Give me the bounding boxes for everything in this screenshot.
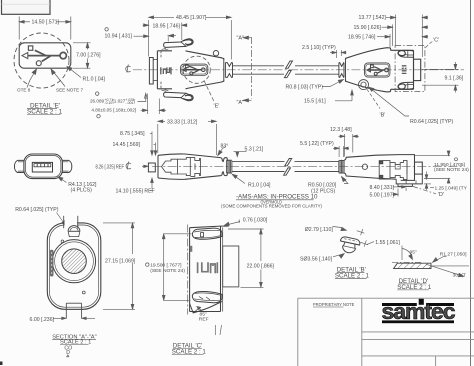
detail E dim 7.00	[73, 43, 91, 68]
svg-text:[1.027: [1.027	[113, 99, 126, 104]
svg-text:12.3 [.48]: 12.3 [.48]	[330, 127, 352, 133]
top-right connector: usb shell	[414, 59, 421, 80]
section A-A dome rivet	[61, 226, 80, 243]
dim 0.76	[224, 220, 240, 226]
svg-text:-0.10: -0.10	[105, 101, 113, 105]
dim 15.5	[304, 99, 326, 105]
middle centerline symbol	[126, 162, 131, 170]
page right border	[470, 0, 472, 366]
svg-text:0.76 [.030]: 0.76 [.030]	[243, 217, 268, 223]
svg-text:18.95 [.746]: 18.95 [.746]	[153, 23, 181, 29]
svg-text:95°: 95°	[410, 250, 417, 256]
top-right connector: usb plate	[365, 63, 390, 77]
dim 26089 leaders	[138, 93, 167, 114]
svg-text:18.95 [.746]: 18.95 [.746]	[348, 35, 376, 41]
svg-text:]: ]	[134, 99, 135, 104]
svg-text:(4 PLCS): (4 PLCS)	[71, 187, 93, 193]
top cable run	[233, 66, 340, 74]
svg-text:2.5 [.10] (TYP): 2.5 [.10] (TYP)	[302, 45, 336, 51]
detail E caption	[27, 103, 63, 116]
section A-A hatched core	[62, 249, 87, 274]
svg-text:"A": "A"	[237, 100, 245, 106]
dim 26.089	[90, 92, 136, 118]
svg-text:'E': 'E'	[214, 104, 220, 110]
svg-text:14.10 [.555] REF: 14.10 [.555] REF	[116, 188, 155, 194]
svg-text:30° (T: 30° (T	[453, 272, 466, 278]
svg-text:4.80±0.05 [.189±.002]: 4.80±0.05 [.189±.002]	[91, 108, 136, 113]
side view right: inner circle	[362, 164, 367, 169]
svg-text:R0.64 [.025] (TYP): R0.64 [.025] (TYP)	[15, 207, 59, 213]
side view right: bottom latch	[396, 174, 422, 186]
middle centerline	[152, 166, 464, 168]
dims 8.75 14.45	[150, 132, 157, 156]
dim 2.5 typ	[330, 50, 346, 58]
top cable break symbol	[284, 61, 292, 78]
side view left: tongue	[148, 163, 155, 172]
85 deg ref	[197, 307, 222, 336]
svg-text:6.00 [.236]: 6.00 [.236]	[30, 317, 55, 323]
detail B leader 2.79	[333, 227, 347, 231]
front view R4.13 leader	[58, 177, 67, 183]
front view usb port	[32, 162, 52, 172]
dim 1.25	[424, 172, 434, 191]
svg-text:R1.0 [.04]: R1.0 [.04]	[83, 77, 106, 83]
detail C body	[190, 226, 229, 311]
detail D 95deg	[402, 246, 413, 261]
dim 22.00	[228, 229, 264, 287]
leader 83deg	[218, 147, 226, 156]
svg-text:11.950 [.4705]: 11.950 [.4705]	[434, 162, 466, 168]
dim 10.94	[105, 28, 133, 40]
front view right tab	[62, 160, 71, 172]
detail D bar	[392, 262, 431, 268]
top-right connector: boot	[339, 60, 346, 79]
svg-text:9.1 [.36]: 9.1 [.36]	[445, 76, 464, 82]
dim 33.33	[158, 120, 217, 155]
svg-text:14.50 [.571]: 14.50 [.571]	[32, 20, 60, 26]
section A-A side emboss	[50, 250, 54, 277]
top-right connector: top wing	[398, 50, 414, 57]
leader R0.8	[322, 80, 344, 87]
svg-text:R0.8 [.03] (TYP): R0.8 [.03] (TYP)	[286, 85, 324, 91]
proprietary note label	[313, 302, 355, 307]
top-right connector: overmold body	[346, 48, 414, 92]
R0.64 leader to section	[15, 207, 59, 213]
dim 27.15	[103, 223, 135, 309]
svg-text:13.77 [.542]: 13.77 [.542]	[359, 15, 387, 21]
top-left revision box	[2, 0, 51, 14]
svg-text:15.90 [.626]: 15.90 [.626]	[354, 25, 382, 31]
dims 13.77 15.90 18.95	[377, 15, 428, 58]
detail C centerline	[187, 225, 189, 315]
svg-text:Ø2.79 [.110]: Ø2.79 [.110]	[305, 227, 334, 233]
section A-A outer stadium	[47, 223, 101, 309]
middle cable	[232, 161, 339, 171]
svg-text:-.004: -.004	[126, 101, 134, 105]
detail B caption	[335, 267, 370, 280]
detail B rivet	[338, 236, 360, 255]
top-left connector: detail E dashed circle	[183, 56, 210, 83]
detail E leader note8	[27, 69, 37, 88]
centerline symbol	[126, 65, 131, 73]
svg-text:15.5 [.61]: 15.5 [.61]	[304, 99, 326, 105]
section A-A caption	[52, 334, 96, 357]
svg-text:22.00 [.866]: 22.00 [.866]	[247, 264, 275, 270]
section A-A bottom notch	[66, 291, 85, 318]
detail D R1.27	[433, 257, 447, 263]
top-left connector: usb plate	[181, 64, 208, 75]
D leader	[413, 187, 436, 194]
dims 8.26 14.10 REF	[142, 165, 153, 191]
top-right connector: samtec emboss	[402, 66, 407, 74]
side view left: inner profile	[162, 158, 201, 177]
svg-text:OTE 8: OTE 8	[17, 88, 31, 93]
side view right: bellows	[339, 160, 344, 174]
svg-text:10.94 [.431]: 10.94 [.431]	[105, 33, 133, 39]
dim 5.00	[393, 189, 399, 197]
top-right connector: B rivet	[359, 80, 369, 90]
top assembly centerline	[133, 69, 464, 71]
title block	[298, 298, 474, 366]
dim 48.45	[149, 16, 232, 60]
leader R0.50	[342, 177, 349, 184]
svg-text:48.45 [1.907]: 48.45 [1.907]	[176, 15, 207, 21]
svg-text:'C': 'C'	[433, 38, 439, 44]
side view right: inner profile	[379, 161, 407, 180]
detail C bottom beak	[190, 302, 222, 313]
leader R1.0 mid	[232, 174, 245, 183]
detail C top wing	[192, 228, 222, 239]
svg-text:8.26 [.325] REF: 8.26 [.325] REF	[96, 165, 125, 171]
svg-text:27.15 [1.069]: 27.15 [1.069]	[105, 259, 136, 265]
dim 5.3	[234, 152, 247, 157]
dim 11.950	[415, 151, 450, 184]
front view left tab	[14, 160, 23, 172]
svg-text:samtec: samtec	[382, 299, 456, 324]
detail E dim 14.50	[19, 17, 71, 40]
svg-text:5.5 [.22] (TYP): 5.5 [.22] (TYP)	[300, 141, 334, 147]
svg-text:'B': 'B'	[380, 113, 386, 119]
top-left connector: samtec emboss	[161, 67, 171, 74]
side view left: bellows	[227, 160, 232, 174]
svg-text:5.3 [.21]: 5.3 [.21]	[245, 146, 264, 152]
front view outer body	[24, 154, 63, 179]
detail C caption	[172, 342, 207, 355]
top-left connector: top wing	[162, 39, 194, 50]
svg-text:SØ3.56 [.140]: SØ3.56 [.140]	[300, 257, 333, 263]
svg-text:8.75 [.345]: 8.75 [.345]	[120, 131, 145, 137]
C leader	[426, 42, 433, 48]
detail C shell block	[223, 246, 239, 287]
svg-text:1.55 [.061]: 1.55 [.061]	[375, 240, 400, 246]
svg-text:7.00 [.276]: 7.00 [.276]	[76, 52, 101, 58]
svg-text:33.33 [1.312]: 33.33 [1.312]	[167, 119, 198, 125]
detail B dim 1.55	[357, 229, 374, 247]
detail C samtec glyph	[198, 262, 218, 273]
top-left connector: dome rivet side	[213, 51, 218, 56]
middle cable break	[284, 159, 292, 176]
detail E usb trident	[22, 46, 66, 66]
section A-A top notch	[65, 221, 78, 227]
samtec logo	[382, 299, 456, 324]
dim 6.00	[53, 317, 95, 320]
dim 18.95 top-left	[143, 23, 188, 41]
detail B leader 3.56	[333, 254, 344, 259]
svg-text:(SEE NOTE 24): (SEE NOTE 24)	[434, 167, 469, 173]
detail C side emboss mark	[190, 246, 192, 252]
detail E leader R1.0	[67, 67, 81, 78]
svg-text:(SOME COMPONENTS REMOVED FOR C: (SOME COMPONENTS REMOVED FOR CLARITY)	[221, 204, 323, 209]
bottom-left corner mark	[0, 362, 3, 366]
svg-text:1.25 [.049] (TY: 1.25 [.049] (TY	[435, 185, 468, 191]
detail C dash-dot boundary	[395, 45, 425, 91]
detail E usb plate	[19, 43, 71, 68]
top-right connector: bottom wing	[398, 82, 414, 89]
top-left connector: overmold body	[157, 51, 223, 89]
detail D 30deg	[426, 264, 469, 277]
svg-text:83°: 83°	[221, 144, 229, 150]
svg-text:SEE NOTE 7: SEE NOTE 7	[56, 88, 84, 93]
section A-A cut line	[243, 36, 251, 102]
svg-text:5.00 [.197]: 5.00 [.197]	[370, 192, 395, 198]
svg-text:REF: REF	[199, 316, 209, 322]
svg-text:'D': 'D'	[438, 192, 444, 198]
svg-text:R0.64 [.025] (TYP): R0.64 [.025] (TYP)	[410, 119, 454, 125]
top-left connector: boot	[224, 60, 233, 79]
dim 5.5 typ	[333, 146, 349, 157]
dim 9.1	[422, 62, 459, 93]
section A-A cable rings	[52, 240, 95, 283]
detail E leader note7	[51, 69, 65, 87]
side view right: body	[344, 155, 414, 181]
top-left connector: bottom wing	[162, 90, 194, 101]
side view right: shell	[415, 162, 423, 174]
detail E boundary circle	[14, 33, 69, 88]
top-left connector: usb shell	[149, 58, 157, 85]
svg-text:8.40 [.331]: 8.40 [.331]	[370, 185, 395, 191]
svg-text:26.089: 26.089	[90, 99, 104, 104]
dim 12.3	[339, 134, 360, 157]
svg-text:19.500 [.7677]: 19.500 [.7677]	[150, 262, 182, 268]
svg-text:(SEE NOTE 24): (SEE NOTE 24)	[150, 268, 185, 274]
detail D caption	[397, 278, 432, 291]
svg-text:R1.0 [.04]: R1.0 [.04]	[248, 182, 271, 188]
svg-text:"A": "A"	[237, 36, 245, 42]
side view left: body	[158, 154, 227, 179]
E leader	[204, 81, 214, 102]
dim 19.500	[162, 234, 191, 300]
svg-text:14.45 [.569]: 14.45 [.569]	[113, 142, 141, 148]
svg-text:D: D	[66, 350, 70, 356]
B leaders	[367, 87, 409, 116]
svg-text:PROPRIETARY NOTE: PROPRIETARY NOTE	[313, 302, 355, 307]
AMS in-process text	[221, 194, 323, 209]
section A-A cable exit lines top	[64, 216, 78, 229]
svg-text:R1.27 [.050]: R1.27 [.050]	[440, 252, 467, 258]
detail C bottom wing	[192, 292, 222, 303]
dim 8.40	[393, 186, 407, 191]
